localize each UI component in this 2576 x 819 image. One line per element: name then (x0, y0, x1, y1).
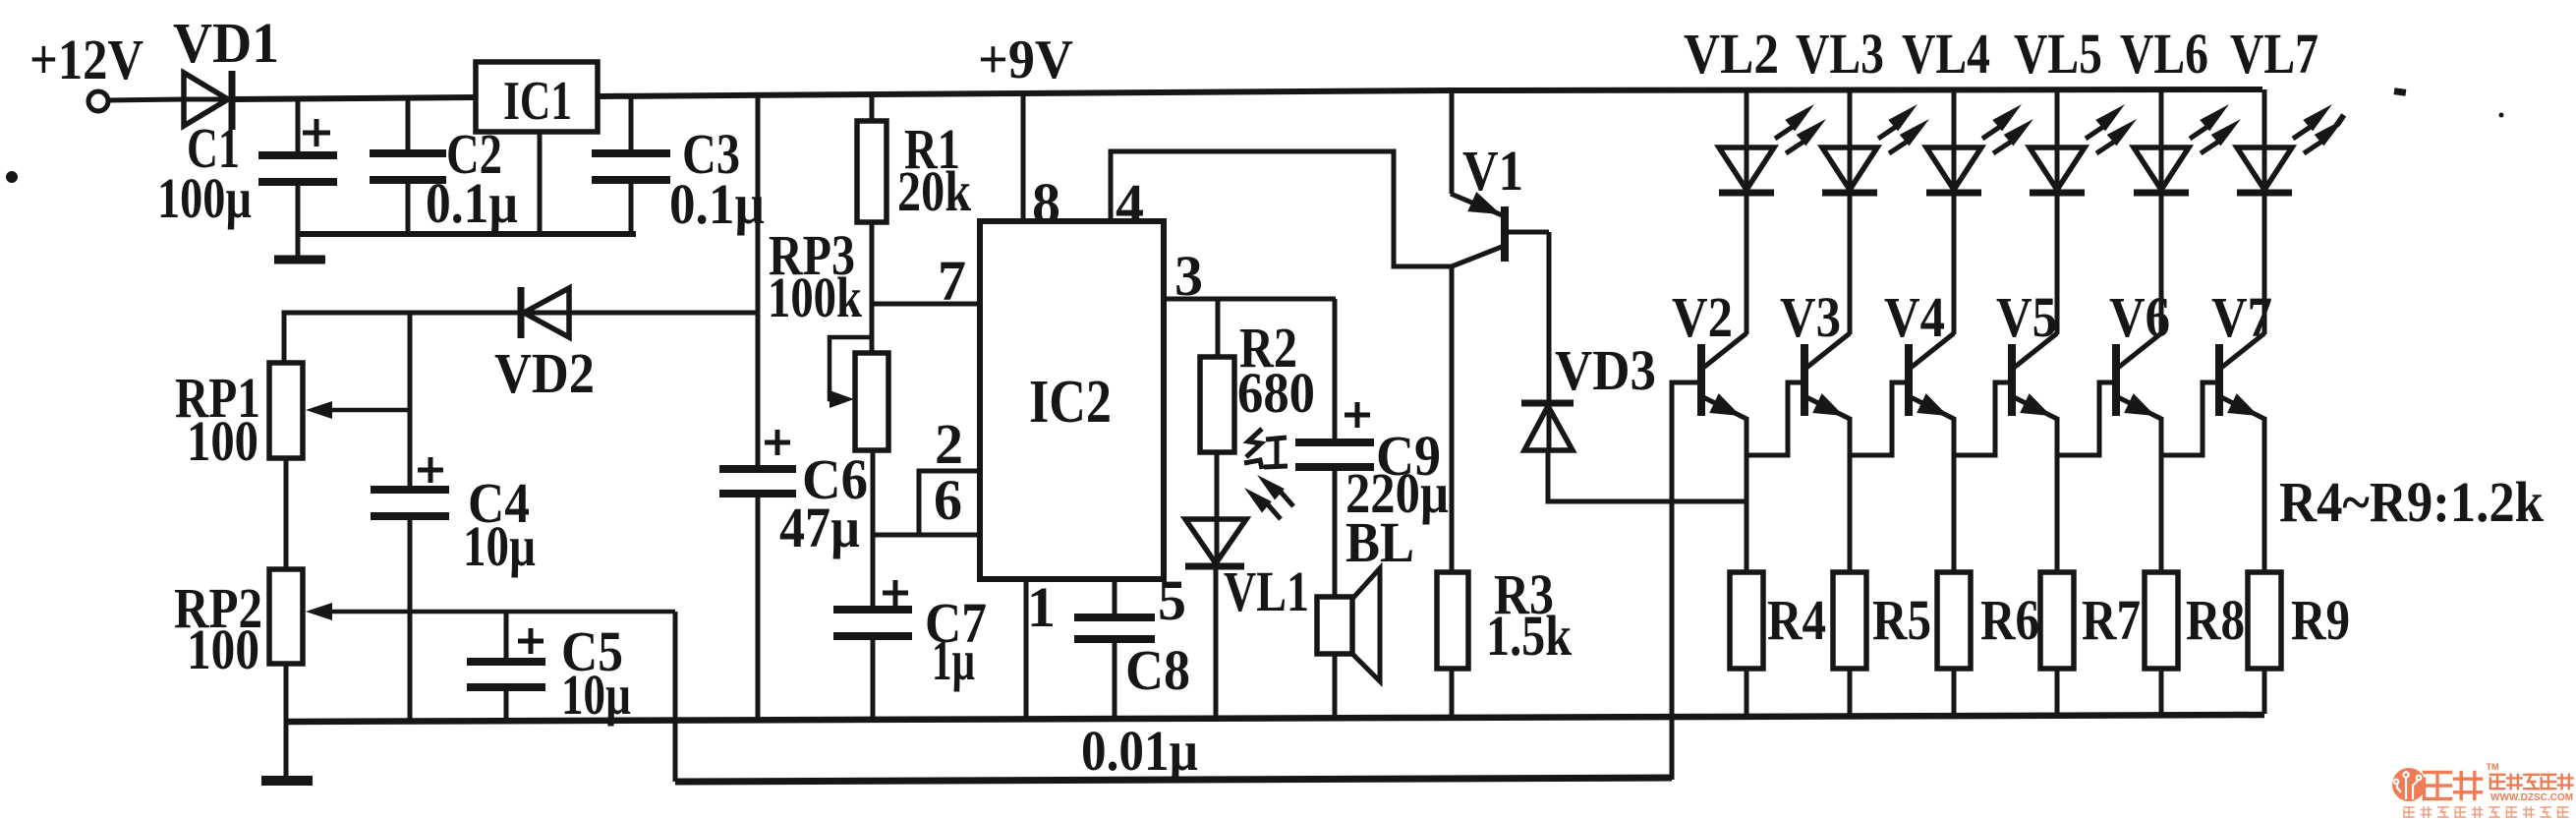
VL6 light arrows (2190, 126, 2209, 139)
wire feedback node down to lower return wire (673, 612, 678, 782)
transistor V6 (2118, 333, 2161, 368)
diode VD2 (519, 311, 569, 316)
VL3 light arrows (1878, 126, 1898, 139)
svg-text:BL: BL (1345, 510, 1414, 574)
svg-text:100: 100 (187, 409, 258, 473)
polarity + of C1 (303, 131, 330, 136)
speaker BL (1317, 597, 1352, 654)
wire V1 to VD3 (1547, 232, 1552, 403)
resistor R6 (1937, 572, 1971, 669)
svg-text:1.5k: 1.5k (1486, 604, 1573, 668)
svg-text:47µ: 47µ (779, 496, 860, 559)
LED VL3 (1848, 89, 1853, 193)
svg-text:10µ: 10µ (561, 663, 631, 727)
capacitor C4 (371, 486, 449, 494)
IC2 pin 8 wire (1021, 93, 1026, 221)
VL2 light arrows (1775, 126, 1795, 139)
wire V6 emitter to R8 (2159, 417, 2164, 572)
RP3 wiper hook wire (830, 337, 872, 399)
wire RP3 bottom to pin6/C7 node (871, 450, 876, 608)
svg-text:VL7: VL7 (2230, 22, 2318, 86)
svg-text:2: 2 (935, 412, 963, 476)
transistor V5 (2014, 333, 2057, 368)
svg-text:C8: C8 (1125, 638, 1190, 702)
wire VL4 to V4 collector (1952, 193, 1957, 334)
wire VL5 to V5 collector (2055, 193, 2060, 334)
svg-text:5: 5 (1158, 568, 1186, 632)
wire BL to bottom rail (1333, 654, 1338, 719)
polarity + of C7 (883, 591, 908, 596)
svg-text:V4: V4 (1884, 285, 1945, 349)
regulator IC1 (476, 62, 598, 132)
wire VL2 to V2 collector (1745, 193, 1749, 334)
svg-text:100: 100 (187, 617, 259, 681)
svg-text:VL6: VL6 (2120, 22, 2208, 86)
svg-text:10µ: 10µ (463, 514, 536, 578)
svg-text:V1: V1 (1462, 139, 1523, 203)
capacitor C7 (833, 606, 912, 614)
wire R1 bottom to RP3 (870, 222, 875, 353)
transistor V3 (1806, 333, 1850, 368)
svg-text:100k: 100k (768, 265, 863, 329)
svg-text:6: 6 (934, 468, 962, 532)
svg-text:VD2: VD2 (494, 341, 595, 405)
svg-text:IC1: IC1 (503, 71, 572, 132)
wire VD1 to IC1 (+12V rail) (230, 97, 476, 99)
wire V5 emitter to R7 (2055, 417, 2060, 572)
VL7 light arrows (2293, 126, 2313, 139)
transistor V4 (1911, 333, 1954, 368)
watermark brand characters (2425, 773, 2451, 799)
svg-text:WWW.DZSC.COM: WWW.DZSC.COM (2490, 791, 2573, 803)
wire VD2 to C6 line (569, 311, 758, 316)
svg-text:0.01µ: 0.01µ (1081, 719, 1198, 783)
RP2 wiper arrow wire to feedback node (330, 610, 675, 614)
svg-text:V2: V2 (1672, 285, 1733, 349)
wire VL1 to bottom rail (1214, 566, 1219, 720)
svg-text:0.1µ: 0.1µ (669, 172, 765, 236)
LED VL6 (2159, 89, 2164, 193)
wire RP1 bottom to RP2 top (284, 458, 289, 569)
LED VL7 (2262, 89, 2267, 193)
svg-text:1µ: 1µ (932, 628, 975, 692)
svg-text:+9V: +9V (978, 29, 1073, 90)
svg-text:R8: R8 (2186, 588, 2245, 652)
IC2 pin 1 wire (1024, 579, 1029, 721)
svg-text:TM: TM (2487, 762, 2499, 772)
wire bottom ground rail (286, 715, 2264, 722)
svg-text:+12V: +12V (29, 28, 143, 91)
resistor R7 (2040, 572, 2074, 669)
watermark logo circle (2392, 768, 2426, 801)
diode VD1 (184, 97, 232, 102)
LED VL5 (2055, 89, 2060, 193)
LED VL1 (1215, 519, 1220, 566)
IC2 pin 5 wire (1113, 579, 1117, 615)
ground symbol bottom (261, 776, 313, 786)
resistor R1 (870, 93, 875, 121)
wire VL3 to V3 collector (1848, 193, 1853, 334)
capacitor C2 (406, 97, 411, 151)
svg-text:V3: V3 (1780, 285, 1841, 349)
wire IC1 to +9V rail end at VL7 (598, 89, 2262, 96)
capacitor C3 (629, 96, 634, 151)
capacitor C9 (1295, 439, 1374, 446)
svg-text:7: 7 (938, 249, 966, 313)
svg-text:4: 4 (1116, 172, 1144, 236)
resistor R8 (2145, 572, 2178, 669)
svg-text:V6: V6 (2109, 285, 2170, 349)
wire VD3 to V2 emitter node (1548, 450, 1746, 501)
wire VL7 to V7 collector (2262, 193, 2267, 334)
VL4 light arrows (1982, 126, 2002, 139)
wire V2 emitter to R4 (1745, 417, 1749, 572)
wire RP1 top to VD2 (284, 313, 521, 363)
capacitor C8 (1074, 614, 1155, 621)
resistor R9 (2248, 572, 2281, 669)
svg-text:R4: R4 (1767, 588, 1826, 652)
IC1 ground pin wire (538, 132, 543, 234)
potentiometer RP1 (269, 363, 303, 458)
node +12V input terminal (88, 91, 108, 111)
wire V2 base to lower return wire (1672, 382, 1701, 780)
IC2 pin 4 wire to V1 base node (1111, 151, 1452, 266)
wire terminal to VD1 (108, 99, 184, 100)
wire RP2 bottom to ground rail (284, 664, 289, 777)
svg-text:R5: R5 (1872, 588, 1931, 652)
wire V5 base to V4 emitter (1954, 382, 2012, 455)
wire C9 to speaker BL (1333, 470, 1338, 597)
svg-text:R7: R7 (2082, 588, 2141, 652)
svg-text:VD1: VD1 (173, 11, 279, 75)
wire V3 emitter to R5 (1848, 417, 1853, 572)
polarity + of C9 (1345, 413, 1370, 418)
wire R2 to VL1 (1215, 452, 1220, 519)
transistor V7 (2221, 333, 2264, 368)
svg-text:100µ: 100µ (157, 166, 252, 230)
wire V6 base to V5 emitter (2057, 382, 2116, 455)
transistor V1 (1450, 90, 1455, 194)
IC2 pin 6 wire (872, 533, 980, 538)
VL1 light arrows (1266, 502, 1281, 519)
resistor R5 (1833, 572, 1866, 669)
watermark slogan characters (2404, 807, 2414, 817)
wire V3 base to V2 emitter (1746, 382, 1804, 455)
svg-text:VL1: VL1 (1224, 559, 1309, 623)
wire pin3 to R2 (1216, 299, 1221, 357)
resistor R4 (1730, 572, 1763, 669)
capacitor C1 (296, 99, 301, 153)
ground symbol left (274, 256, 325, 264)
svg-text:8: 8 (1032, 171, 1060, 235)
LED VL2 (1745, 89, 1749, 193)
IC2 pin 7 wire (872, 302, 980, 307)
wire pin3 to C9 (1333, 299, 1338, 440)
resistor R3 (1450, 266, 1455, 572)
svg-text:1: 1 (1027, 575, 1056, 639)
capacitor C6 (719, 465, 796, 473)
svg-text:VL3: VL3 (1796, 22, 1884, 86)
wire C6 branch from +9V rail (756, 94, 761, 467)
svg-text:VL2: VL2 (1684, 22, 1779, 86)
LED VL4 (1952, 89, 1957, 193)
IC2 pin 2 wire (919, 471, 980, 535)
svg-text:R6: R6 (1980, 588, 2039, 652)
svg-text:3: 3 (1174, 244, 1203, 308)
polarity + of C4 (418, 468, 443, 473)
capacitor C5 (504, 612, 509, 660)
svg-text:20k: 20k (897, 159, 972, 223)
svg-text:IC2: IC2 (1029, 369, 1112, 436)
potentiometer RP3 (855, 353, 888, 450)
svg-text:V7: V7 (2211, 285, 2272, 349)
transistor V2 (1703, 333, 1746, 368)
wire V4 base to V3 emitter (1850, 382, 1909, 455)
IC2 pin 3 output wire (1164, 297, 1336, 302)
wire V7 base to V6 emitter (2161, 382, 2219, 455)
svg-text:R9: R9 (2291, 588, 2350, 652)
wire V7 emitter to R9 (2262, 417, 2267, 572)
wire C4 branch vertical (408, 313, 413, 488)
resistor R2 (1200, 357, 1234, 452)
svg-text:0.1µ: 0.1µ (426, 171, 518, 235)
svg-text:VD3: VD3 (1555, 338, 1656, 402)
svg-text:680: 680 (1237, 361, 1315, 425)
wire V4 emitter to R6 (1952, 417, 1957, 572)
wire lower return rail (RP2 wiper to V2 base) (675, 778, 1672, 782)
potentiometer RP2 (269, 569, 303, 664)
svg-text:R4~R9:1.2k: R4~R9:1.2k (2279, 470, 2545, 534)
ground rail under C1 C2 IC1 C3 (298, 231, 636, 237)
svg-text:VL4: VL4 (1902, 22, 1990, 86)
timer IC2 (980, 221, 1164, 579)
RP1 wiper arrow wire (330, 408, 410, 413)
polarity + of C5 (518, 639, 544, 644)
VL5 light arrows (2086, 126, 2105, 139)
diode VD3 (1547, 403, 1552, 450)
polarity + of C6 (765, 440, 790, 445)
wire VL6 to V6 collector (2159, 193, 2164, 334)
svg-text:VL5: VL5 (2014, 22, 2102, 86)
label red (Chinese) for VL1 (1244, 429, 1288, 469)
scan speckle (6, 171, 18, 183)
